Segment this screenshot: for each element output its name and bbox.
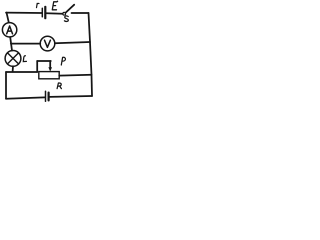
wire left border lower bbox=[5, 72, 7, 99]
label S bbox=[64, 16, 68, 22]
label E bbox=[52, 1, 57, 10]
rheostat slider arrow head bbox=[48, 67, 52, 71]
wire switch to top-right corner bbox=[72, 12, 89, 14]
wire bottom left segment bbox=[6, 97, 45, 98]
voltmeter V letter bbox=[45, 40, 51, 47]
wire rheostat riser bbox=[36, 61, 38, 72]
wire top-left segment bbox=[6, 12, 42, 14]
wire slider horizontal bbox=[37, 60, 51, 62]
wire rheostat to right border bbox=[59, 74, 91, 77]
wire lamp node horizontal bbox=[6, 71, 37, 73]
battery E top: long plate bbox=[41, 8, 43, 16]
wire ammeter to junction bbox=[10, 37, 12, 51]
switch S pivot bbox=[63, 12, 66, 15]
wire battery to switch bbox=[47, 12, 63, 15]
ammeter A circle bbox=[2, 23, 16, 37]
label P bbox=[61, 57, 65, 65]
right border wire bbox=[89, 13, 93, 96]
label L bbox=[23, 56, 26, 62]
switch S lever bbox=[65, 5, 74, 13]
wire bottom right segment bbox=[50, 95, 92, 98]
ammeter A letter bbox=[7, 26, 13, 34]
lamp L cross bbox=[8, 53, 19, 64]
wire voltmeter right bbox=[55, 42, 90, 43]
wire lamp bottom bbox=[12, 66, 14, 72]
capacitor bottom: left plate bbox=[45, 91, 47, 101]
battery E top: short thick plate bbox=[44, 7, 46, 18]
label R bbox=[57, 83, 61, 89]
wire voltmeter left bbox=[11, 43, 40, 45]
voltmeter V circle bbox=[40, 36, 55, 51]
wire top-left corner drop bbox=[7, 13, 9, 23]
rheostat R box bbox=[39, 72, 59, 79]
rheostat slider arrow shaft bbox=[49, 61, 51, 68]
capacitor bottom: right plate bbox=[47, 93, 49, 101]
lamp L circle bbox=[5, 51, 21, 67]
label r bbox=[37, 3, 40, 7]
